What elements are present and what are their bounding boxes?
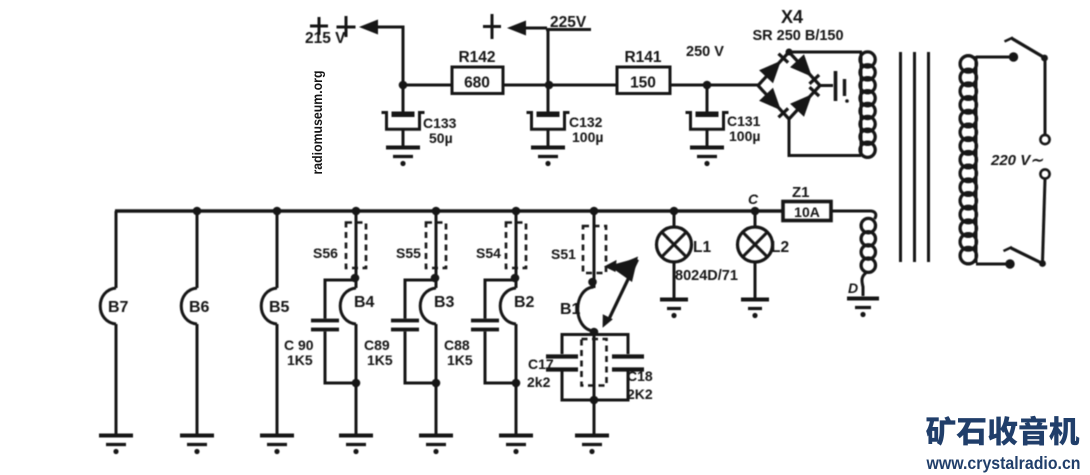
svg-text:B4: B4 [354,294,375,311]
node B4 bus junction [352,207,361,216]
switch S54 dashed box [476,223,526,269]
plus sign 225V [483,14,501,39]
svg-text:2k2: 2k2 [527,374,551,390]
svg-text:C133: C133 [423,115,457,131]
wire primary top [976,56,1009,59]
svg-text:X4: X4 [781,7,803,27]
svg-text:C18: C18 [627,368,653,384]
wire bridge top to winding [789,51,862,54]
switch S55 dashed box [396,223,446,269]
svg-text:1K5: 1K5 [447,352,473,368]
plus sign 215V left [310,17,328,35]
capacitor chassis at bridge right [836,71,849,103]
svg-text:B7: B7 [108,299,129,316]
node B3 upper junction [431,274,440,283]
wire switch to plug top [1044,58,1047,136]
switch S56 dashed box [313,223,366,269]
tube heater B2 [500,288,534,324]
svg-text:S55: S55 [396,245,421,261]
svg-text:B6: B6 [189,299,210,316]
svg-text:1K5: 1K5 [367,352,393,368]
wire B4 lower vertical [355,324,358,434]
arrow 225V output [507,21,526,36]
svg-text:100µ: 100µ [572,129,603,145]
arrow 215V output [359,20,378,35]
svg-text:B2: B2 [514,294,535,311]
lamp L2 [738,211,790,318]
watermark crystalradio chinese [926,416,1079,446]
capacitor C89 1K5 [364,280,436,383]
ground B6 [180,436,214,455]
svg-text:SR 250 B/150: SR 250 B/150 [752,28,843,44]
switch bottom blade [1004,247,1046,267]
svg-text:215 V: 215 V [305,30,346,47]
svg-text:C17: C17 [528,356,554,372]
wire B4 vertical [355,211,358,288]
capacitor C133 [382,85,457,166]
svg-text:B5: B5 [269,299,290,316]
switch S51 dashed box [551,226,606,273]
ground B5 [260,436,294,455]
tube heater B1 [560,287,594,331]
transformer core [901,52,929,262]
node B2 bus junction [512,207,521,216]
svg-text:Z1: Z1 [792,184,810,201]
svg-text:2K2: 2K2 [627,386,653,402]
capacitor C132 [527,85,604,166]
svg-text:220 V∼: 220 V∼ [990,152,1043,169]
ground B7 [99,436,133,455]
svg-text:C88: C88 [444,337,470,353]
capacitor C131 [686,85,761,166]
ground B4 [339,436,373,455]
arrow S51 upper pointer [604,260,638,273]
svg-text:1K5: 1K5 [287,352,313,368]
svg-text:100µ: 100µ [729,128,760,144]
svg-text:R141: R141 [624,49,661,66]
svg-text:C131: C131 [727,113,761,129]
resistor R141 [617,49,670,94]
capacitor C88 1K5 [444,280,516,383]
node B1 bus junction [590,207,599,216]
tube heater B4 [340,288,374,324]
ground B3 [419,436,453,455]
node B2 upper junction [511,274,520,283]
wire primary bottom [976,263,1006,266]
wire main B+ rail [403,84,758,87]
svg-text:50µ: 50µ [429,130,453,146]
tube heater B5 [261,211,289,434]
arrow S51 lower pointer [603,260,638,328]
wire B1 lower vertical [593,331,596,434]
node B1 upper junction [588,278,597,287]
wire 215V branch [377,27,403,85]
wire bridge right to cap [820,84,833,87]
capacitor C17 2k2 [527,335,594,401]
svg-text:150: 150 [630,75,656,92]
node top switch contact [1009,52,1018,61]
arrow S51 pointer wedge [612,257,639,283]
svg-text:R142: R142 [458,49,495,66]
lamp L1 [657,207,738,318]
tube heater B3 [420,288,454,324]
svg-text:C: C [748,191,759,207]
svg-text:250 V: 250 V [686,44,724,60]
svg-text:S54: S54 [476,245,501,261]
resistor R142 [452,49,503,94]
transformer primary winding [960,56,976,264]
ground B2 [499,436,533,455]
svg-text:10A: 10A [794,204,820,220]
rectifier X4 bridge [752,7,843,119]
node B4 upper junction [351,274,360,283]
svg-text:B1: B1 [560,301,581,318]
svg-text:D: D [848,280,858,296]
svg-text:C132: C132 [569,114,603,130]
wire bridge bottom to winding [789,119,861,156]
node B2 lower junction [512,379,521,388]
node bottom switch contact [1005,259,1014,268]
ground B1 [575,436,609,455]
capacitor C18 2K2 [594,335,653,403]
svg-text:C 90: C 90 [284,337,314,353]
wire B3 vertical [435,211,438,288]
switch S51 lower dashed box [582,339,607,386]
node C [751,207,760,216]
tube heater B6 [181,211,209,434]
svg-text:radiomuseum.org: radiomuseum.org [310,71,325,175]
wire B2 lower vertical [515,324,518,434]
fuse Z1 10A [783,184,831,221]
node 250V junction [703,81,712,90]
svg-text:225V: 225V [550,14,587,31]
svg-text:C89: C89 [364,337,390,353]
node B6 bus junction [193,207,202,216]
tube heater B7 [100,211,128,434]
wire Z1 to heater winding [831,211,876,219]
svg-text:S56: S56 [313,245,338,261]
svg-text:8024D/71: 8024D/71 [675,268,738,284]
wire B3 lower vertical [435,324,438,434]
svg-text:www.crystalradio.cn: www.crystalradio.cn [926,453,1081,473]
plus sign 215V right [337,16,356,37]
wire plug bottom to switch [1043,179,1046,262]
wire heater bus [115,209,783,212]
node B1 mid junction [590,328,599,337]
node B3 bus junction [432,207,441,216]
node B4 lower junction [352,379,361,388]
node B1 bottom junction [590,396,599,405]
terminal plug bottom [1040,169,1049,178]
svg-text:L1: L1 [693,239,711,256]
svg-text:L2: L2 [771,239,789,256]
terminal plug top [1040,135,1049,144]
node B5 bus junction [273,207,282,216]
svg-text:B3: B3 [434,294,455,311]
wire B1 vertical [593,211,596,288]
svg-text:S51: S51 [551,246,576,262]
wire 225V branch [526,28,591,85]
capacitor C 90 1K5 [284,280,356,383]
node 215V junction [399,81,408,90]
wire B2 vertical [515,211,518,288]
ground D [847,299,879,318]
switch top blade [1005,38,1048,62]
transformer heater winding [861,218,875,296]
transformer HV winding [860,52,875,157]
node 225V junction [545,81,554,90]
node B3 lower junction [432,379,441,388]
svg-text:680: 680 [464,75,490,92]
